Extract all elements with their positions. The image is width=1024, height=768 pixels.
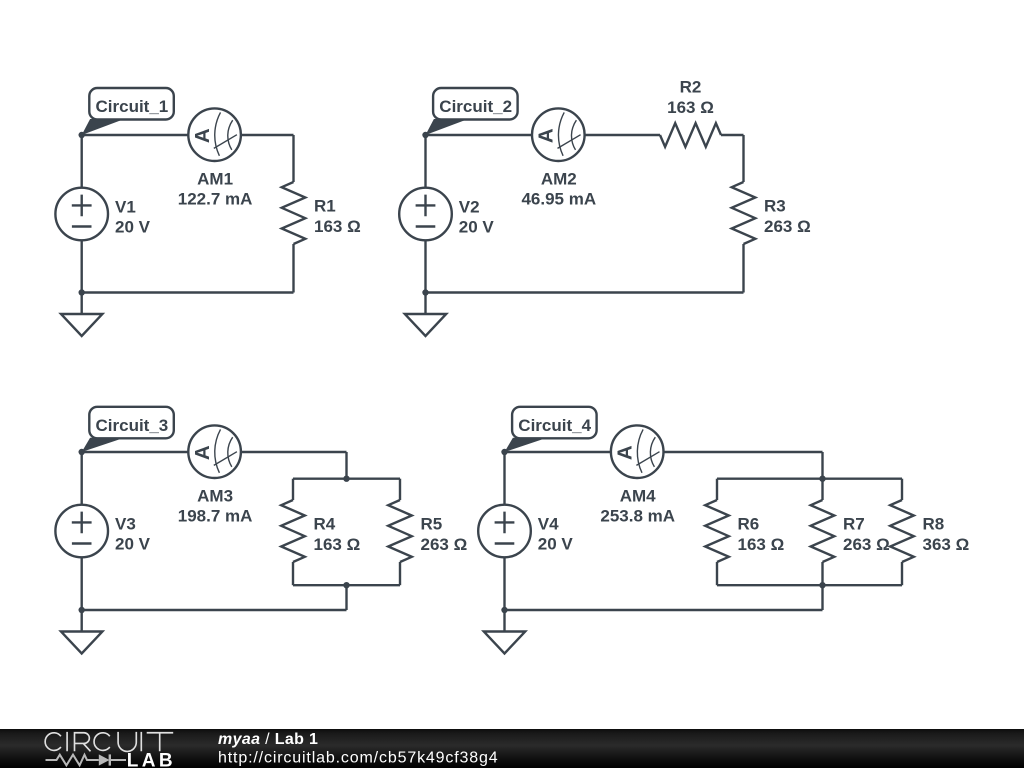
node: parallel rail top junction — [343, 476, 349, 482]
svg-text:Circuit_1: Circuit_1 — [96, 97, 169, 116]
wire: R5 bottom lead — [399, 562, 401, 585]
svg-text:163 Ω: 163 Ω — [667, 98, 714, 117]
wire: R4 top lead — [292, 479, 294, 500]
svg-text:Circuit_3: Circuit_3 — [96, 416, 169, 435]
svg-text:AM2: AM2 — [541, 170, 577, 189]
svg-text:AM4: AM4 — [620, 487, 656, 506]
node Circuit_3 junction — [79, 449, 85, 455]
net label flag "Circuit_4" — [505, 407, 597, 452]
node: parallel rail bottom junction — [343, 582, 349, 588]
wire: circuit 4 left branch through V4 — [503, 452, 505, 610]
footer bar — [0, 729, 1024, 768]
wire: parallel top rail — [717, 478, 902, 480]
wire: R4 bottom lead — [292, 562, 294, 585]
net label flag "Circuit_1" — [82, 88, 174, 135]
wire: R6 top lead — [716, 479, 718, 500]
svg-text:R4: R4 — [314, 515, 336, 534]
logo schematic: wire with resistor and diode — [46, 754, 127, 765]
svg-text:363 Ω: 363 Ω — [923, 535, 970, 554]
svg-text:R8: R8 — [923, 515, 945, 534]
node Circuit_2 junction — [422, 132, 428, 138]
svg-text:163 Ω: 163 Ω — [314, 535, 361, 554]
svg-text:20 V: 20 V — [538, 535, 574, 554]
net label flag "Circuit_3" — [82, 407, 174, 452]
svg-text:AM1: AM1 — [197, 170, 233, 189]
ground symbol — [61, 610, 102, 654]
resistor R5 263 &#937; (vertical) — [388, 500, 467, 562]
node: circuit 2 ground junction — [422, 289, 428, 295]
wire: R3 top lead — [742, 135, 744, 182]
net label flag "Circuit_2" — [426, 88, 518, 135]
ground symbol — [61, 293, 102, 337]
svg-text:20 V: 20 V — [115, 218, 151, 237]
resistor R8 363 &#937; (vertical) — [890, 500, 969, 562]
voltage source V1 20 V — [55, 188, 150, 241]
node Circuit_4 junction — [501, 449, 507, 455]
wire: circuit 4 top from node Circuit_4 — [505, 451, 823, 453]
svg-text:http://circuitlab.com/cb57k49c: http://circuitlab.com/cb57k49cf38g4 — [218, 749, 499, 766]
wire: circuit 2 bottom return — [426, 291, 744, 293]
wire: circuit 3 bottom return — [82, 609, 347, 611]
svg-text:V2: V2 — [459, 198, 480, 217]
ammeter AM2 reading 46.95 mA — [521, 108, 596, 208]
wire: R8 bottom lead — [901, 562, 903, 585]
svg-text:R3: R3 — [764, 197, 786, 216]
wire: parallel bottom rail — [717, 584, 902, 586]
svg-text:198.7 mA: 198.7 mA — [178, 507, 253, 526]
wire: R1 bottom lead — [292, 244, 294, 293]
resistor R7 263 &#937; (vertical) — [811, 500, 890, 562]
wire: R3 bottom lead — [742, 244, 744, 293]
ground symbol — [484, 610, 525, 654]
wire: parallel bottom rail — [293, 584, 400, 586]
voltage source V2 20 V — [399, 188, 494, 241]
ammeter AM4 reading 253.8 mA — [600, 425, 675, 525]
wire: circuit 1 top from node Circuit_1 to R1 — [82, 134, 294, 136]
svg-text:LAB: LAB — [127, 750, 176, 768]
resistor R2 163 &#937; (horizontal) — [660, 78, 721, 147]
svg-text:263 Ω: 263 Ω — [843, 535, 890, 554]
wire: circuit 1 left branch through V1 — [80, 135, 82, 293]
svg-text:163 Ω: 163 Ω — [738, 535, 785, 554]
svg-text:R5: R5 — [421, 515, 443, 534]
svg-text:46.95 mA: 46.95 mA — [521, 190, 596, 209]
resistor R3 263 &#937; (vertical) — [732, 182, 811, 244]
svg-text:263 Ω: 263 Ω — [764, 217, 811, 236]
svg-text:AM3: AM3 — [197, 487, 233, 506]
node: parallel rail bottom junction — [819, 582, 825, 588]
resistor R1 163 &#937; (vertical) — [282, 182, 361, 244]
wire: R5 top lead — [399, 479, 401, 500]
wire: circuit 1 bottom return — [82, 291, 294, 293]
wire: drop to parallel rail top — [821, 452, 823, 479]
svg-text:A: A — [191, 445, 214, 460]
svg-text:263 Ω: 263 Ω — [421, 535, 468, 554]
wire: circuit 2 top from node Circuit_2 to R2 — [426, 134, 661, 136]
wire: R8 top lead — [901, 479, 903, 500]
ammeter AM1 reading 122.7 mA — [178, 108, 253, 208]
ground symbol — [405, 293, 446, 337]
svg-text:V3: V3 — [115, 515, 136, 534]
wire: drop from bottom rail — [345, 585, 347, 610]
wire: circuit 3 left branch through V3 — [80, 452, 82, 610]
resistor R6 163 &#937; (vertical) — [705, 500, 784, 562]
node: circuit 3 ground junction — [79, 607, 85, 613]
svg-text:20 V: 20 V — [459, 218, 495, 237]
svg-text:R7: R7 — [843, 515, 865, 534]
wire: R6 bottom lead — [716, 562, 718, 585]
svg-text:122.7 mA: 122.7 mA — [178, 190, 253, 209]
wire: R7 top lead — [821, 479, 823, 500]
wire: parallel top rail — [293, 478, 400, 480]
wire: R2 right lead to corner — [721, 134, 744, 136]
voltage source V3 20 V — [55, 505, 150, 558]
wire: R1 top lead — [292, 135, 294, 182]
svg-text:253.8 mA: 253.8 mA — [600, 507, 675, 526]
node Circuit_1 junction — [79, 132, 85, 138]
node: circuit 1 ground junction — [79, 289, 85, 295]
svg-text:myaa / Lab 1: myaa / Lab 1 — [218, 731, 318, 748]
wire: circuit 2 left branch through V2 — [424, 135, 426, 293]
voltage source V4 20 V — [478, 505, 573, 558]
node: circuit 4 ground junction — [501, 607, 507, 613]
wire: drop from bottom rail — [821, 585, 823, 610]
svg-text:R1: R1 — [314, 197, 336, 216]
svg-text:V1: V1 — [115, 198, 136, 217]
svg-text:R2: R2 — [680, 78, 702, 97]
svg-text:A: A — [191, 128, 214, 143]
svg-text:Circuit_4: Circuit_4 — [518, 416, 591, 435]
wire: drop to parallel rail top — [345, 452, 347, 479]
svg-text:20 V: 20 V — [115, 535, 151, 554]
CircuitLab logo wordmark "CIRCUIT" — [45, 732, 173, 751]
ammeter AM3 reading 198.7 mA — [178, 425, 253, 525]
svg-text:Circuit_2: Circuit_2 — [439, 97, 512, 116]
wire: R7 bottom lead — [821, 562, 823, 585]
svg-text:V4: V4 — [538, 515, 559, 534]
svg-text:A: A — [535, 128, 558, 143]
svg-text:163 Ω: 163 Ω — [314, 217, 361, 236]
wire: circuit 4 bottom return — [505, 609, 823, 611]
node: parallel rail top junction — [819, 476, 825, 482]
resistor R4 163 &#937; (vertical) — [281, 500, 360, 562]
svg-text:A: A — [614, 445, 637, 460]
svg-text:R6: R6 — [738, 515, 760, 534]
wire: circuit 3 top from node Circuit_3 — [82, 451, 347, 453]
